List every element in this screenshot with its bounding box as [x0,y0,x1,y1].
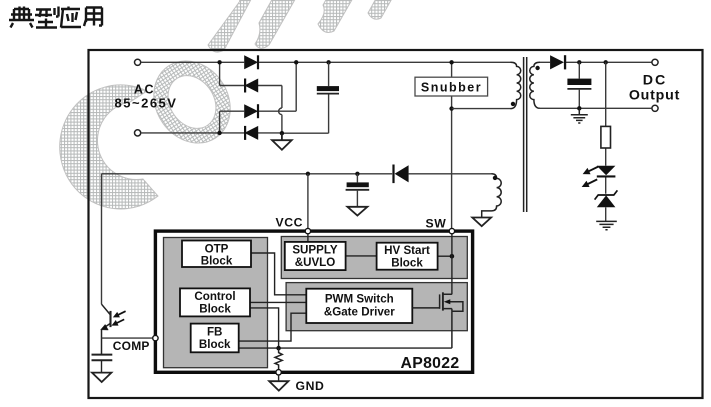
node out cap top [577,60,581,64]
svg-text:SW: SW [426,216,447,230]
wire bridge left vertical [219,62,221,133]
LED D7 [597,166,616,178]
title 典型应用 [9,7,102,28]
svg-text:Output: Output [629,88,680,104]
capacitor C3 [567,62,591,108]
wire D3 row [220,110,297,112]
svg-text:&UVLO: &UVLO [295,256,336,269]
PWM gray panel [286,283,467,331]
svg-text:SUPPLY: SUPPLY [292,244,338,257]
LED arrows [580,163,600,190]
wire VCC pin to supply [307,233,309,242]
svg-text:AC: AC [134,83,155,97]
svg-text:AP8022: AP8022 [401,355,460,372]
block PWM Switch &Gate Driver [306,289,412,323]
char 典 [9,7,34,28]
node fb chain top [604,60,608,64]
diode D6 [392,165,408,184]
pin GND [276,370,281,375]
wire VCC pin drop [307,174,309,230]
pin SW [449,228,454,233]
transformer aux winding [482,174,502,218]
wire supply to HV [346,255,377,257]
char 用 [84,8,102,27]
wire Control to PWM [250,301,306,303]
wire snubber vertical [451,62,453,229]
wire D4 anode to ground node [258,132,282,134]
diode D4 [244,126,258,140]
svg-text:Block: Block [199,338,231,351]
svg-text:OTP: OTP [205,242,229,255]
svg-text:VCC: VCC [276,216,304,230]
ground C2 [347,207,367,216]
node snubber top [449,60,453,64]
wire D2 row [220,85,245,87]
transformer core [524,57,527,212]
wire cap C1 bottom run [282,95,329,134]
snubber box [415,77,488,96]
wire AC line2 [141,132,245,134]
IC U1 AP8022 outline [155,231,472,372]
node C3 bottom [577,106,581,110]
wire D2 anode down with hop [258,86,282,134]
node gnd rail [276,346,281,351]
node C2 top [355,172,359,176]
wire primary bottom [452,108,511,110]
svg-text:HV Start: HV Start [384,244,430,257]
node C1 top [326,60,330,64]
diode D2 [244,79,258,93]
node bridge out [294,60,298,64]
letter C of watermark [60,85,158,209]
optocoupler transistor Q1 [101,304,111,354]
diode D1 [244,55,259,69]
wire secondary bottom [538,107,652,109]
svg-text:GND: GND [296,379,325,393]
svg-text:DC: DC [643,72,668,88]
svg-text:85~265V: 85~265V [115,96,178,111]
node SW internal [450,254,455,259]
wire SW vertical to mosfet [451,233,453,295]
block FB [191,324,239,353]
zener ZD1 [595,190,618,207]
wire secondary top [540,61,652,63]
diode D3 [244,104,259,118]
svg-text:FB: FB [207,326,222,339]
block Control [180,288,250,316]
wire opto collector drop [101,174,103,304]
wire HV to SW line [438,255,452,257]
char 型 [35,7,59,28]
diode D5 [550,55,566,69]
transformer primary winding [511,62,521,108]
block SUPPLY &UVLO [285,242,346,270]
chip [153,228,473,393]
wire D3 cathode up [295,62,297,111]
block HV Start [377,243,438,270]
capacitor C4 [92,355,113,373]
opto light arrows [110,308,127,328]
pin VCC [305,228,310,233]
transformer secondary winding [530,62,540,108]
svg-text:Block: Block [201,255,233,268]
svg-text:Control: Control [194,290,235,303]
svg-text:Snubber: Snubber [421,80,482,94]
DC terminal top [652,59,658,65]
ground earth ZD1 [596,221,617,229]
char 应 [61,7,81,28]
svg-text:&Gate Driver: &Gate Driver [324,305,395,318]
wire gnd rail [239,347,452,349]
AC terminal bottom [135,130,141,136]
block OTP [182,241,251,268]
pin COMP [153,335,158,340]
wire GND pin to ground [278,375,280,382]
node AC2 [217,131,221,135]
resistor R2 zigzag [275,348,282,369]
ground GND pin [269,381,288,390]
svg-text:COMP: COMP [113,339,150,353]
letter o of watermark [138,46,245,157]
node VCC drop [306,172,310,176]
wire AC line1 [141,61,511,63]
svg-text:Block: Block [391,256,423,269]
capacitor C2 [346,174,370,207]
capacitor C1 [317,62,339,93]
node AC1 [217,60,221,64]
wire FB to PWM [239,313,307,341]
AC terminal top [135,59,141,65]
resistor R1 [601,126,611,148]
svg-text:PWM Switch: PWM Switch [325,292,394,305]
wire feedback chain [605,62,607,221]
watermark [60,0,394,209]
ground bridge [272,133,292,150]
ground C4 [92,373,111,382]
left gray panel [164,238,268,368]
secondary phase dot [535,66,539,70]
wire COMP [102,337,153,339]
svg-text:Block: Block [199,303,231,316]
DC terminal bottom [652,105,658,111]
node snubber bottom [449,106,453,110]
ground aux [472,218,491,227]
wire VCC rail [102,173,492,175]
aux phase dot [493,176,497,180]
top right gray panel [281,237,467,279]
transistor Q2 mosfet [412,292,463,348]
wire Control to gnd rail [250,308,279,348]
letter m strokes of watermark [208,0,394,52]
ground earth C3 [571,108,588,123]
wire OTP to PWM [251,253,306,295]
primary phase dot [511,102,515,106]
node bridge gnd [280,131,284,135]
